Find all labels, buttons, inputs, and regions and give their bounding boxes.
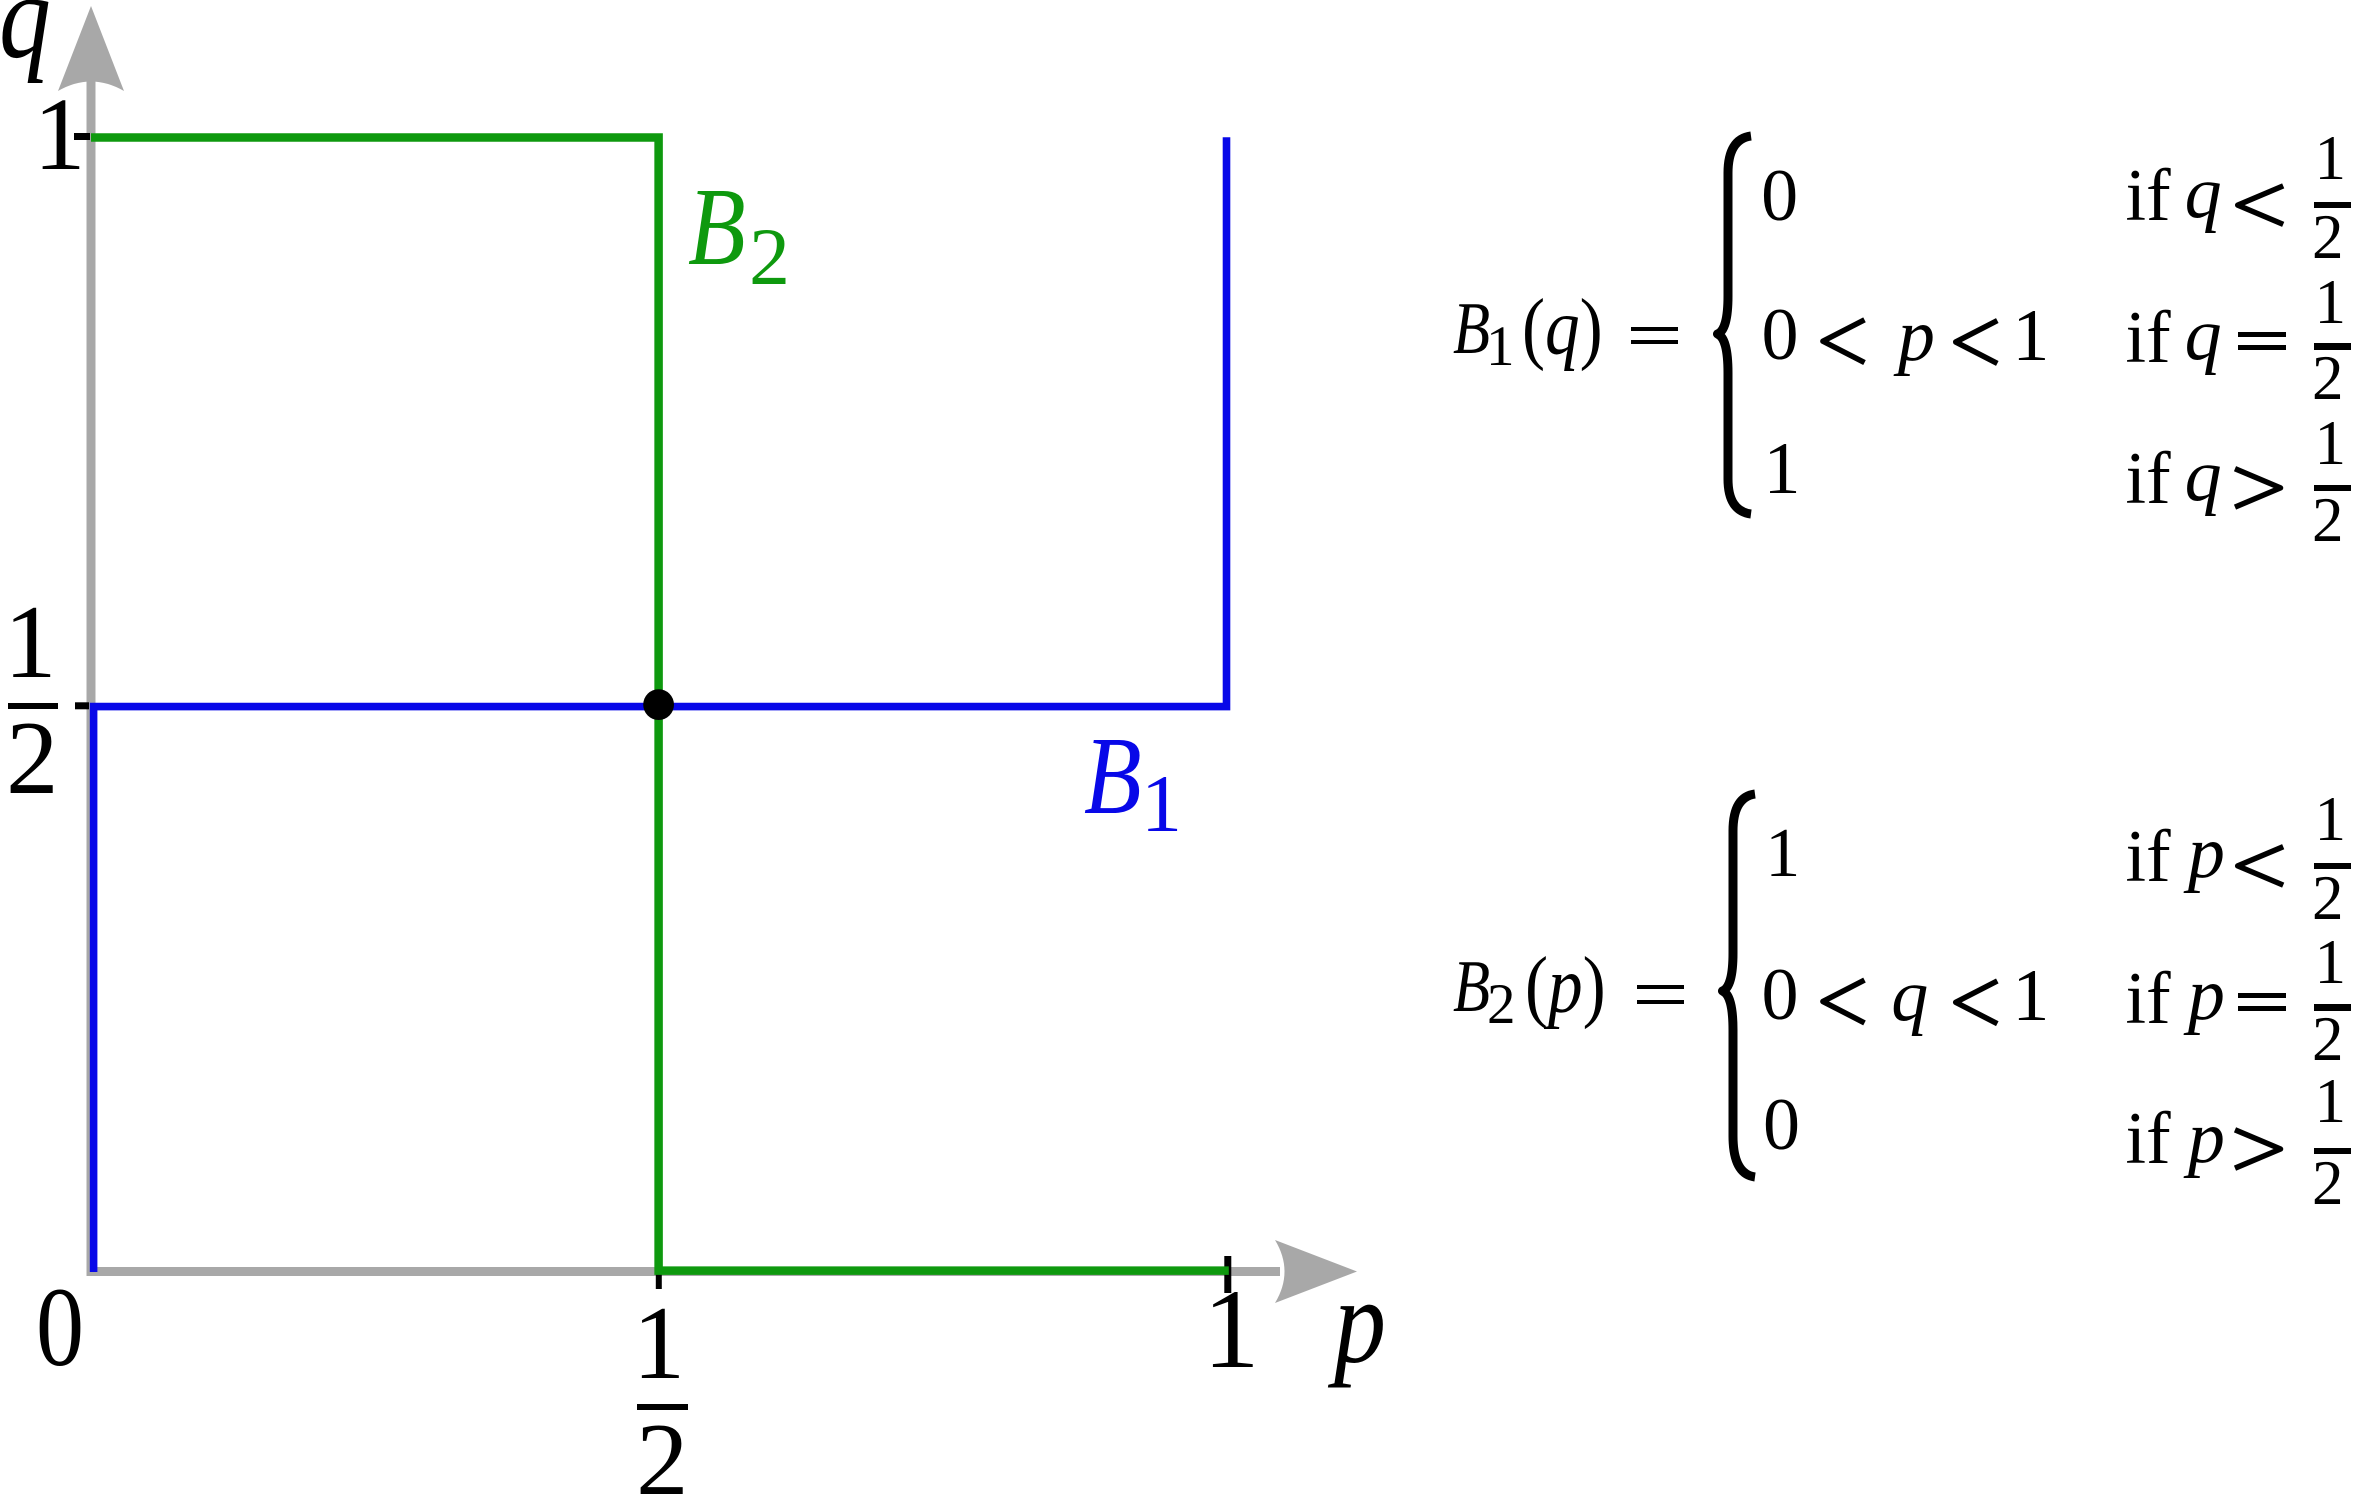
f2 row1 value 1 <box>1765 819 1800 889</box>
tick label 1 (p axis) <box>1203 1273 1260 1386</box>
comparator f2 row3 > <box>2235 1130 2281 1168</box>
brace of formula B1 <box>1718 136 1752 514</box>
best response curve B1 (blue) <box>94 137 1227 1272</box>
f1 row2 value 0 < p < 1 <box>1762 298 1799 372</box>
y axis (q, gray) <box>87 80 96 1272</box>
tick label 1/2 (p axis) numerator <box>633 1290 686 1395</box>
x axis arrowhead <box>1275 1240 1357 1303</box>
f2 cond row1: if p < 1/2 <box>2126 820 2171 894</box>
f1 cond row2: if q = 1/2 <box>2126 301 2171 375</box>
tick label 1/2 (q axis) denominator <box>6 705 59 810</box>
formula B2(p) head <box>1453 950 1490 1024</box>
comparator f1 row2-left < #2 <box>1956 321 1998 364</box>
formula B1(q) = sign <box>1631 327 1678 345</box>
comparator f1 row3 > <box>2235 469 2281 507</box>
axis label p <box>1334 1262 1386 1383</box>
tick label 1 (q axis) <box>34 83 86 187</box>
f1 cond row3: if q > 1/2 <box>2126 442 2171 516</box>
tick p=1 <box>1224 1256 1231 1293</box>
curve label B2 (green) <box>688 172 746 283</box>
brace of formula B2 <box>1723 794 1756 1177</box>
y axis arrowhead <box>58 6 124 91</box>
comparator f1 row2-left < #1 <box>1823 320 1865 363</box>
tick label 1/2 (p axis) bar <box>637 1404 688 1410</box>
formula B1(q) head <box>1453 292 1490 366</box>
tick p=1/2 <box>656 1273 662 1289</box>
tick label 1/2 (q axis) bar <box>8 703 59 710</box>
comparator f2 row2-left < #1 <box>1823 980 1865 1023</box>
tick label 1/2 (q axis) numerator <box>4 589 57 694</box>
comparator f1 row1 < <box>2238 186 2284 225</box>
comparator f2 row2-left < #2 <box>1956 981 1998 1024</box>
f2 cond row2: if p = 1/2 <box>2126 962 2171 1036</box>
tick q=1/2 <box>75 702 89 709</box>
x axis (p, gray) <box>87 1267 1281 1276</box>
origin label 0 <box>36 1271 84 1384</box>
formula B2(p) = sign <box>1637 985 1684 1004</box>
tick q=1 <box>74 133 90 140</box>
best response curve B2 (green) <box>91 138 1229 1271</box>
f1 row1 value 0 <box>1761 159 1798 233</box>
tick label 1/2 (p axis) denominator <box>636 1407 689 1494</box>
f1 cond row1: if q < 1/2 <box>2126 159 2171 233</box>
f1 row3 value 1 <box>1764 432 1801 506</box>
curve label B1 (blue) <box>1084 721 1142 832</box>
axis label q <box>0 0 51 78</box>
comparator f2 row1 < <box>2238 847 2284 885</box>
f2 cond row3: if p > 1/2 <box>2126 1102 2171 1176</box>
f2 row2 value 0 < q < 1 <box>1762 958 1799 1032</box>
f2 row3 value 0 <box>1763 1088 1800 1162</box>
Nash equilibrium dot <box>643 689 674 720</box>
